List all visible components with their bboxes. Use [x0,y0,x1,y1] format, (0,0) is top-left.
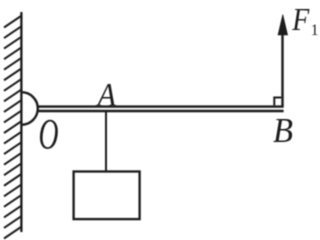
svg-text:B: B [273,111,293,150]
string from A [105,112,107,172]
wall [20,12,22,232]
arrowhead [278,15,288,36]
svg-text:1: 1 [311,22,319,39]
weight box [74,172,140,220]
beam top line [37,105,284,107]
hinge semicircle at O [22,92,38,125]
svg-text:F: F [291,2,310,37]
wall hatching [4,16,21,239]
force line F1 [281,32,283,107]
svg-text:A: A [96,77,116,114]
beam bottom line [38,110,284,112]
right-angle mark at B [274,98,281,106]
svg-text:O: O [39,112,59,159]
